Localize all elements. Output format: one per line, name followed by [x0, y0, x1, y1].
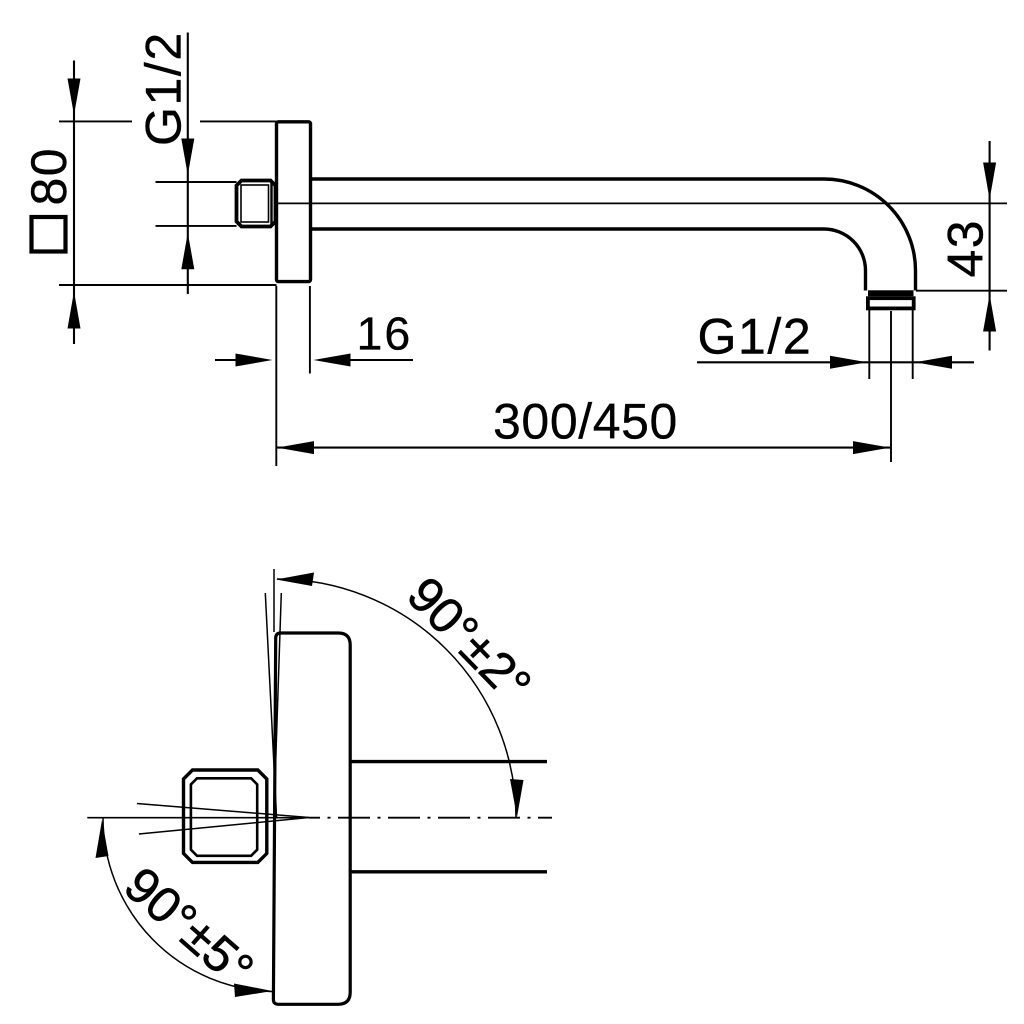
arc 90+-2: left arrow — [276, 573, 314, 587]
dim 43: up arrow — [983, 295, 996, 332]
dim G1/2 bottom: left-pointing arrow — [915, 356, 952, 369]
tolerance ray upper (5deg) — [137, 804, 309, 818]
dim 16: left line + arrow — [215, 359, 240, 361]
svg-text:43: 43 — [938, 219, 994, 278]
dim square-80: square symbol — [32, 217, 66, 252]
thread fitting (bottom view) inner — [191, 778, 257, 856]
tube (bottom view) top edge — [351, 760, 547, 763]
dim G1/2 bottom: extension lines — [868, 309, 870, 379]
dim 43: dimension line — [989, 141, 991, 351]
dim G1/2 top: dimension line — [187, 33, 189, 295]
thread fitting G1/2 (side view) outer — [237, 181, 276, 227]
vertical extension ray — [273, 569, 275, 632]
dim G1/2 top: up arrow — [181, 233, 194, 269]
dim 43: down arrow — [983, 163, 996, 200]
end nut collar — [868, 298, 914, 308]
svg-text:G1/2: G1/2 — [136, 31, 192, 146]
dim 300/450: left arrow — [277, 441, 314, 454]
arm tube outline bottom/inner — [311, 229, 866, 291]
dim G1/2 top: down arrow — [181, 139, 194, 176]
arc 90+-2: down arrow — [510, 779, 524, 817]
arc 90+-5: top arrow — [96, 820, 109, 858]
dim 300/450: dimension line — [277, 447, 890, 449]
tube (bottom view) bottom edge — [351, 870, 547, 873]
dim 300/450: right arrow — [853, 441, 890, 454]
arc 90+-5 — [103, 818, 273, 992]
wall plate (side view) — [277, 122, 311, 282]
svg-text:G1/2: G1/2 — [698, 309, 813, 365]
dim 300/450: right extension line (tube axis) — [890, 311, 892, 462]
dim 16: right line + arrow — [349, 359, 413, 361]
dim square-80: top arrow — [68, 79, 81, 116]
svg-text:300/450: 300/450 — [493, 394, 678, 450]
dim G1/2 bottom: dimension line — [697, 361, 974, 363]
dim square-80: dimension line — [73, 61, 75, 345]
arc 90+-5: right arrow — [234, 984, 272, 998]
axis: dash-dot right part — [309, 817, 552, 819]
thread fitting right relief line — [270, 182, 272, 225]
wall plate (bottom view) — [273, 633, 350, 1004]
svg-text:16: 16 — [357, 307, 413, 359]
arc 90+-2 — [277, 579, 516, 818]
thread fitting inner line — [241, 185, 269, 222]
svg-text:80: 80 — [21, 147, 77, 206]
end nut black band — [868, 290, 914, 296]
tolerance ray lower (5deg) — [139, 818, 309, 835]
dim square-80: top extension line — [59, 120, 132, 122]
axis: solid thin left part — [87, 817, 309, 819]
dim G1/2 bottom: right-pointing arrow — [830, 356, 867, 369]
arm tube outline top/outer — [311, 179, 916, 291]
dim 43: bottom extension line — [916, 290, 1007, 292]
centre axis line (also 43-dim top extension) — [278, 202, 1007, 204]
dim 16: right extension line — [309, 286, 311, 374]
tolerance ray left (2deg) — [265, 593, 276, 818]
dim G1/2 top: extension lines — [156, 181, 237, 183]
dim 16: left extension line (shared with 300/450) — [275, 286, 277, 466]
dim square-80: bottom extension line — [59, 284, 277, 286]
tolerance ray right (2deg) — [274, 593, 282, 818]
thread fitting (bottom view) outer — [184, 770, 267, 862]
dim square-80: bottom arrow — [68, 292, 81, 329]
